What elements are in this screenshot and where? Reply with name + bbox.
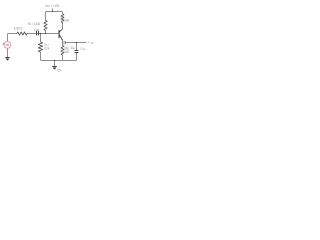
svg-text:CE: CE (71, 45, 75, 50)
svg-text:8.2k: 8.2k (44, 45, 49, 50)
svg-text:VCC = +15V: VCC = +15V (45, 3, 60, 8)
svg-text:+ vo: + vo (88, 40, 94, 45)
svg-text:R1 = 1240: R1 = 1240 (28, 21, 41, 26)
svg-text:500: 500 (65, 49, 70, 54)
svg-text:CC1: CC1 (34, 27, 40, 32)
svg-text:10k: 10k (64, 17, 69, 22)
svg-text:10μ: 10μ (80, 46, 86, 51)
svg-text:10mV: 10mV (14, 26, 23, 31)
